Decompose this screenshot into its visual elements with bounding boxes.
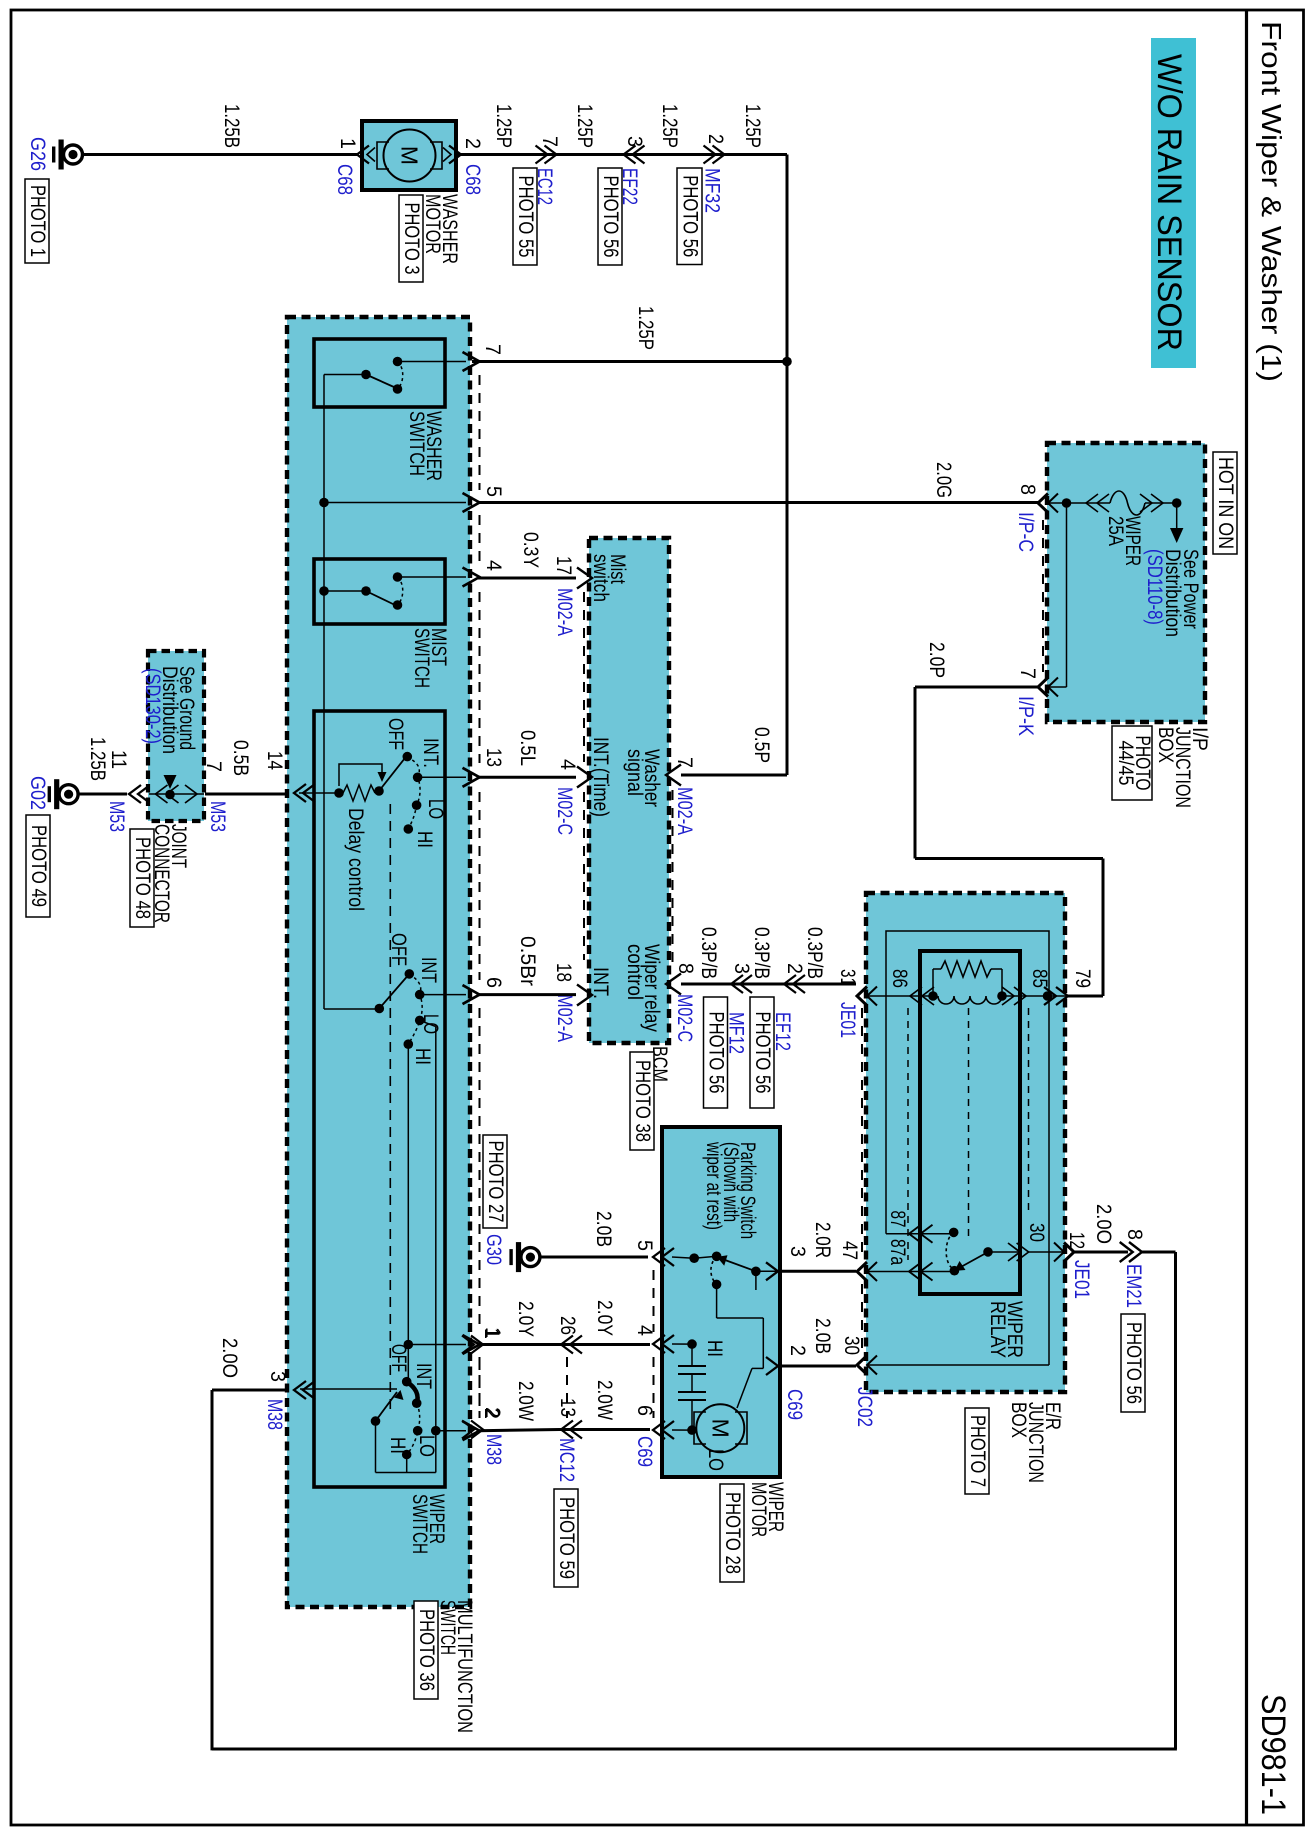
svg-text:86: 86 [888, 969, 911, 988]
svg-text:HI: HI [413, 831, 436, 848]
svg-text:HI: HI [411, 1048, 434, 1065]
svg-text:3: 3 [786, 1246, 809, 1257]
svg-text:47: 47 [838, 1241, 861, 1260]
svg-text:2.0B: 2.0B [592, 1211, 615, 1247]
svg-text:I/P-K: I/P-K [1014, 696, 1037, 736]
svg-text:C68: C68 [333, 164, 356, 195]
svg-text:PHOTO 49: PHOTO 49 [27, 825, 50, 907]
svg-text:M38: M38 [482, 1434, 505, 1465]
svg-text:2.0O: 2.0O [218, 1338, 241, 1378]
svg-text:(SD130-2): (SD130-2) [141, 668, 164, 744]
svg-text:INT.(Time): INT.(Time) [589, 737, 612, 817]
svg-text:SWITCH: SWITCH [410, 628, 433, 688]
svg-text:0.5B: 0.5B [229, 740, 252, 776]
svg-text:HOT IN ON: HOT IN ON [1214, 457, 1237, 549]
svg-text:MC12: MC12 [555, 1438, 578, 1482]
svg-text:C69: C69 [633, 1436, 656, 1467]
svg-text:1.25P: 1.25P [492, 104, 515, 148]
svg-text:G26: G26 [26, 137, 49, 171]
svg-text:C68: C68 [461, 164, 484, 195]
svg-text:control: control [623, 944, 646, 1000]
svg-text:JC02: JC02 [853, 1387, 876, 1427]
svg-text:Delay control: Delay control [344, 808, 367, 911]
svg-text:INT.: INT. [589, 967, 612, 999]
svg-text:8: 8 [1016, 484, 1039, 495]
svg-text:25A: 25A [1104, 516, 1127, 546]
svg-text:11: 11 [107, 750, 130, 769]
svg-text:signal: signal [623, 749, 646, 796]
svg-text:2.0O: 2.0O [1092, 1204, 1115, 1244]
svg-text:0.3Y: 0.3Y [519, 532, 542, 568]
svg-text:85: 85 [1028, 969, 1051, 988]
svg-text:1.25P: 1.25P [658, 104, 681, 148]
svg-text:M02-A: M02-A [553, 994, 576, 1042]
svg-text:PHOTO 56: PHOTO 56 [1122, 1322, 1145, 1404]
svg-text:30: 30 [1025, 1223, 1048, 1242]
svg-text:HI: HI [703, 1340, 726, 1357]
svg-text:31: 31 [836, 969, 859, 986]
svg-text:18: 18 [552, 963, 575, 982]
svg-text:79: 79 [1071, 969, 1094, 988]
svg-text:7: 7 [1016, 668, 1039, 679]
svg-text:12: 12 [1065, 1232, 1088, 1249]
svg-text:17: 17 [552, 556, 575, 575]
svg-text:Front Wiper & Washer (1): Front Wiper & Washer (1) [1256, 21, 1287, 382]
svg-text:13: 13 [482, 748, 505, 767]
svg-text:LO: LO [424, 799, 447, 819]
svg-text:BOX: BOX [1154, 727, 1177, 763]
svg-text:SWITCH: SWITCH [408, 1494, 431, 1554]
svg-text:2.0P: 2.0P [925, 642, 948, 678]
svg-text:G30: G30 [482, 1234, 505, 1265]
svg-text:PHOTO 38: PHOTO 38 [631, 1060, 654, 1142]
svg-text:M53: M53 [206, 801, 229, 832]
svg-text:JE01: JE01 [1070, 1260, 1093, 1299]
svg-text:1: 1 [336, 138, 359, 149]
svg-text:0.5L: 0.5L [516, 730, 539, 766]
svg-text:INT: INT [417, 957, 440, 983]
svg-text:2.0R: 2.0R [811, 1222, 834, 1258]
svg-text:2: 2 [461, 138, 484, 149]
svg-text:PHOTO 27: PHOTO 27 [484, 1141, 507, 1223]
svg-text:SD981-1: SD981-1 [1254, 1694, 1292, 1815]
svg-text:RELAY: RELAY [986, 1301, 1009, 1358]
svg-text:OFF: OFF [387, 933, 410, 966]
svg-text:4: 4 [556, 759, 579, 770]
svg-text:PHOTO 1: PHOTO 1 [26, 185, 49, 257]
svg-text:EM21: EM21 [1122, 1264, 1145, 1308]
svg-text:3: 3 [266, 1371, 289, 1382]
svg-text:2: 2 [786, 1345, 809, 1356]
svg-text:PHOTO 56: PHOTO 56 [704, 1012, 727, 1094]
svg-text:6: 6 [482, 977, 505, 988]
svg-text:2: 2 [704, 134, 727, 144]
svg-text:PHOTO 3: PHOTO 3 [400, 203, 423, 275]
svg-text:3: 3 [730, 963, 753, 974]
svg-text:1.25B: 1.25B [220, 104, 243, 148]
svg-text:2.0Y: 2.0Y [514, 1301, 537, 1337]
svg-text:PHOTO 56: PHOTO 56 [751, 1012, 774, 1094]
svg-text:2: 2 [481, 1407, 504, 1418]
svg-text:4: 4 [482, 560, 505, 571]
svg-text:I/P-C: I/P-C [1014, 512, 1037, 552]
svg-text:LO: LO [704, 1449, 727, 1471]
svg-text:1.25B: 1.25B [86, 737, 109, 781]
svg-text:M02-C: M02-C [673, 994, 696, 1042]
svg-text:INT.: INT. [419, 738, 442, 768]
svg-text:87a: 87a [886, 1239, 909, 1265]
svg-text:MF32: MF32 [701, 168, 724, 213]
svg-text:7: 7 [481, 344, 504, 355]
svg-text:1.25P: 1.25P [573, 104, 596, 148]
svg-text:0.3P/B: 0.3P/B [697, 927, 720, 979]
svg-text:1: 1 [481, 1327, 504, 1338]
svg-text:2.0B: 2.0B [811, 1318, 834, 1354]
svg-text:M38: M38 [263, 1399, 286, 1430]
svg-text:OFF: OFF [384, 718, 407, 750]
svg-text:2: 2 [783, 963, 806, 974]
svg-text:7: 7 [202, 761, 225, 772]
svg-text:5: 5 [482, 486, 505, 497]
svg-text:switch: switch [589, 554, 612, 602]
svg-text:1.25P: 1.25P [634, 306, 657, 350]
svg-text:PHOTO 7: PHOTO 7 [966, 1415, 989, 1487]
svg-text:2.0W: 2.0W [514, 1381, 537, 1421]
svg-text:M: M [397, 146, 423, 165]
svg-text:wiper at rest): wiper at rest) [702, 1141, 725, 1230]
svg-text:0.3P/B: 0.3P/B [750, 927, 773, 979]
svg-text:2.0G: 2.0G [932, 462, 955, 498]
svg-text:87: 87 [886, 1211, 909, 1228]
svg-text:BOX: BOX [1007, 1402, 1030, 1438]
svg-text:PHOTO 28: PHOTO 28 [721, 1492, 744, 1574]
svg-text:M53: M53 [105, 801, 128, 832]
svg-text:PHOTO 56: PHOTO 56 [678, 175, 701, 257]
svg-text:0.5Br: 0.5Br [516, 936, 539, 986]
svg-text:HI: HI [386, 1437, 409, 1454]
svg-text:SWITCH: SWITCH [405, 411, 428, 476]
svg-text:M02-C: M02-C [553, 787, 576, 835]
svg-text:PHOTO 56: PHOTO 56 [599, 176, 622, 258]
svg-text:30: 30 [840, 1336, 863, 1355]
svg-text:OFF: OFF [387, 1344, 410, 1372]
svg-text:M02-A: M02-A [673, 787, 696, 835]
svg-text:3: 3 [623, 136, 646, 147]
svg-text:M02-A: M02-A [553, 588, 576, 636]
svg-text:8: 8 [674, 963, 697, 974]
svg-text:PHOTO 48: PHOTO 48 [131, 837, 154, 919]
svg-text:26: 26 [556, 1316, 579, 1335]
svg-text:INT: INT [412, 1363, 435, 1389]
svg-text:14: 14 [263, 751, 286, 770]
svg-text:2.0W: 2.0W [593, 1380, 616, 1420]
svg-text:LO: LO [415, 1435, 438, 1457]
svg-text:(SD110-8): (SD110-8) [1143, 549, 1166, 625]
svg-text:8: 8 [1123, 1229, 1146, 1240]
svg-text:7: 7 [673, 757, 696, 768]
svg-text:PHOTO 55: PHOTO 55 [514, 176, 537, 258]
svg-text:7: 7 [538, 136, 561, 147]
svg-text:MOTOR: MOTOR [421, 194, 444, 254]
svg-text:44/45: 44/45 [1114, 741, 1137, 786]
svg-text:C69: C69 [783, 1389, 806, 1420]
svg-text:W/O RAIN SENSOR: W/O RAIN SENSOR [1150, 54, 1188, 351]
svg-text:SWITCH: SWITCH [436, 1600, 459, 1655]
svg-text:PHOTO 59: PHOTO 59 [555, 1497, 578, 1579]
svg-text:0.3P/B: 0.3P/B [803, 927, 826, 979]
svg-text:0.5P: 0.5P [750, 727, 773, 763]
svg-text:MOTOR: MOTOR [747, 1482, 770, 1537]
svg-text:G02: G02 [26, 776, 49, 810]
svg-text:M: M [707, 1419, 733, 1438]
svg-text:2.0Y: 2.0Y [593, 1300, 616, 1336]
svg-text:PHOTO 36: PHOTO 36 [415, 1609, 438, 1691]
svg-text:1.25P: 1.25P [741, 104, 764, 148]
svg-text:5: 5 [633, 1240, 656, 1251]
svg-text:JE01: JE01 [836, 1002, 859, 1038]
